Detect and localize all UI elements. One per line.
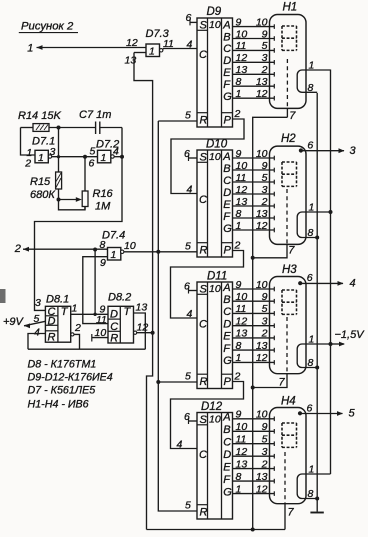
pin label 2 (D8.1 inverse Q)	[74, 322, 81, 334]
svg-text:5: 5	[262, 172, 268, 184]
svg-text:A: A	[222, 282, 230, 294]
label H3	[282, 264, 297, 276]
pin label 7 (H3)	[279, 377, 286, 389]
pin label 5 (D10 R)	[185, 240, 191, 252]
svg-text:C: C	[199, 194, 207, 206]
svg-text:1: 1	[236, 220, 242, 232]
svg-text:D7 - К561ЛЕ5: D7 - К561ЛЕ5	[28, 385, 96, 397]
node 4 (terminal arrow right)	[350, 277, 356, 289]
svg-text:9: 9	[262, 421, 268, 433]
segment wires D12 outputs A-G to display	[233, 419, 275, 494]
counter D9 (К176ИЕ4) body	[197, 18, 233, 127]
inverse output bubble D8.1 pin 2 and wire to rail	[71, 333, 80, 349]
svg-text:7: 7	[288, 245, 295, 257]
wire reset net: D9 R down to D11 R and D12 R	[158, 121, 196, 511]
svg-text:12: 12	[256, 352, 268, 364]
svg-text:5: 5	[349, 408, 356, 420]
wire D8.2 pin 13 to common rail	[134, 313, 146, 349]
node 1 (output terminal, arrow left)	[27, 43, 42, 55]
svg-text:G: G	[223, 355, 232, 367]
node junction grid rail / H2 grid	[251, 256, 255, 260]
svg-text:P: P	[224, 115, 232, 127]
segment wires D10 outputs A-G to display	[233, 158, 275, 230]
pin label 11 (D8.2 C)	[96, 314, 107, 326]
svg-text:1: 1	[309, 464, 315, 476]
wire node 1 to D7.3 pin 12	[37, 47, 147, 49]
svg-text:12: 12	[236, 446, 248, 458]
pin label 5 (D11 R)	[185, 371, 191, 383]
svg-text:P: P	[224, 245, 232, 257]
svg-text:R: R	[200, 507, 208, 519]
svg-text:1: 1	[101, 152, 107, 164]
svg-text:1: 1	[309, 202, 315, 214]
svg-text:9: 9	[236, 148, 242, 160]
svg-text:C7 1m: C7 1m	[79, 109, 111, 121]
flip-flop D8.1 (К176ТМ1 half)	[45, 306, 70, 344]
svg-text:S: S	[200, 151, 208, 163]
svg-text:3: 3	[262, 184, 268, 196]
svg-text:10: 10	[209, 19, 221, 31]
wire H3 pin 6 to terminal arrow	[300, 281, 343, 286]
segment pin entry ticks of H1	[273, 24, 275, 100]
op gate D7.4	[108, 248, 124, 262]
node junction H3 pin1 / rail	[329, 342, 333, 346]
pin label 4 (D10 C)	[187, 184, 193, 196]
display tube H3 (ИВ6) envelope	[270, 277, 307, 374]
svg-text:1М: 1М	[95, 201, 111, 213]
svg-text:D10: D10	[206, 139, 228, 151]
svg-text:12: 12	[137, 322, 149, 334]
pin label 8 (H3 filament)	[308, 357, 314, 369]
svg-text:C: C	[223, 306, 231, 318]
svg-text:R: R	[200, 115, 208, 127]
svg-text:G: G	[223, 223, 232, 235]
svg-text:B: B	[223, 294, 230, 306]
svg-text:9: 9	[236, 279, 242, 291]
svg-text:D8.1: D8.1	[46, 294, 69, 306]
wire carry P of previous counter into C of D11	[171, 251, 244, 319]
svg-text:13: 13	[236, 64, 248, 76]
svg-text:D7.4: D7.4	[102, 230, 125, 242]
pin label 1 (H1 filament)	[309, 60, 315, 72]
wire D7.4 pin 9 to D8.2 pin 11	[83, 257, 108, 324]
node junction reset net	[156, 250, 160, 254]
svg-text:−1,5V: −1,5V	[335, 329, 366, 341]
node junction blink net / D8.2 pin 12	[151, 331, 155, 335]
svg-text:2: 2	[261, 458, 268, 470]
svg-text:Н2: Н2	[281, 133, 296, 145]
flip-flop D8.2 (К176ТМ1 half)	[108, 306, 134, 345]
node junction grid rail / bottom rail	[251, 528, 255, 532]
anode dot (pin 6) of H2	[299, 148, 303, 152]
svg-text:1: 1	[236, 88, 242, 100]
svg-text:D: D	[223, 187, 231, 199]
svg-text:6: 6	[307, 272, 313, 284]
svg-text:680К: 680К	[30, 189, 55, 201]
svg-text:C: C	[223, 43, 231, 55]
segment pin entry ticks of H3	[273, 287, 275, 365]
resistor R16 1M (trimmer)	[82, 157, 113, 213]
svg-text:13: 13	[236, 458, 248, 470]
svg-text:12: 12	[236, 52, 248, 64]
capacitor C7 1m	[79, 109, 111, 134]
wire D8.1 pin 4 to common rail	[28, 334, 45, 350]
svg-text:E: E	[223, 461, 231, 473]
label D8.2	[108, 292, 131, 304]
node junction D7.2 output / C7 branch	[120, 155, 124, 159]
svg-text:R14 15K: R14 15K	[18, 110, 61, 122]
svg-text:1: 1	[236, 352, 242, 364]
svg-text:4: 4	[350, 277, 356, 289]
label D10	[206, 139, 228, 151]
svg-text:2: 2	[14, 243, 21, 255]
pin label 8 (H4 filament)	[308, 488, 314, 500]
svg-text:5: 5	[262, 303, 268, 315]
wire D7.3 pin 13 stub	[134, 52, 146, 54]
svg-text:A: A	[222, 19, 230, 31]
svg-text:D12: D12	[201, 401, 223, 413]
svg-text:13: 13	[256, 471, 268, 483]
svg-text:3: 3	[350, 145, 357, 157]
svg-text:4: 4	[34, 327, 40, 339]
svg-text:9: 9	[100, 257, 106, 269]
node 3 (terminal arrow right)	[350, 145, 357, 157]
pin label 6 (D10)	[184, 148, 190, 160]
pin label 6 (H3)	[307, 272, 313, 284]
svg-text:6: 6	[186, 12, 192, 24]
pin label 5 (D12 R)	[185, 500, 191, 512]
svg-text:S: S	[200, 283, 208, 295]
node 2 (terminal, arrow left)	[14, 243, 29, 255]
pin label 1 (H2 filament)	[309, 202, 315, 214]
pin label 5 (D7.2)	[90, 146, 96, 158]
svg-text:10: 10	[236, 421, 248, 433]
wire node 2 to D7.4 pin 8	[23, 248, 108, 250]
svg-text:2: 2	[74, 322, 81, 334]
svg-text:1: 1	[27, 43, 33, 55]
label H4	[281, 396, 296, 408]
svg-text:S: S	[200, 414, 208, 426]
seven-segment figure inside H1	[282, 26, 297, 50]
svg-text:10: 10	[209, 413, 221, 425]
pin label 7 (H4)	[288, 507, 295, 519]
pin label 6 (H2)	[307, 140, 313, 152]
node junction R15 top on gate wire	[57, 155, 60, 158]
pin label 6 (H4)	[307, 402, 313, 414]
pin label 4 (D7.2 output)	[113, 146, 119, 158]
pin label 13 (D8.2 T out)	[136, 302, 148, 314]
svg-text:5: 5	[262, 40, 268, 52]
svg-text:R: R	[200, 376, 208, 388]
label H2	[281, 133, 296, 145]
svg-text:5: 5	[185, 371, 191, 383]
pin 6 S-input stub of D12	[189, 418, 198, 424]
pin label 10 (D7.4 output)	[124, 240, 136, 252]
wire D7.3 output pin 11 to D9 pin C	[163, 49, 197, 51]
grid electrode (dashed) of H1	[286, 59, 288, 108]
svg-text:1: 1	[72, 303, 78, 315]
segment pin number labels between D11 and display	[236, 279, 268, 364]
wire seconds net down to D8.2 D row	[93, 250, 96, 316]
svg-text:1: 1	[38, 152, 44, 164]
svg-text:C: C	[199, 49, 207, 61]
svg-text:10: 10	[256, 148, 268, 160]
svg-text:10: 10	[256, 279, 268, 291]
svg-text:4: 4	[113, 146, 119, 158]
svg-text:13: 13	[236, 328, 248, 340]
pin label 1 (D7.1)	[26, 147, 32, 159]
label D8.1	[46, 294, 69, 306]
pin label 6 (D11)	[184, 280, 190, 292]
filament of H4 (pins 1 and 8)	[297, 474, 330, 499]
svg-text:8: 8	[308, 357, 314, 369]
svg-text:B: B	[223, 424, 230, 436]
svg-text:6: 6	[184, 411, 190, 423]
svg-text:D: D	[223, 319, 231, 331]
wire carry P of previous counter into C of D12	[171, 382, 244, 449]
wire grid pin 7 of H2	[253, 244, 287, 257]
anode dot (pin 6) of H3	[298, 281, 302, 285]
svg-text:D: D	[223, 55, 231, 67]
svg-text:11: 11	[236, 172, 247, 184]
svg-text:6: 6	[184, 280, 190, 292]
svg-text:8: 8	[236, 76, 242, 88]
pin label 1 (D8.1 Q)	[72, 303, 78, 315]
svg-text:9: 9	[262, 28, 268, 40]
svg-text:B: B	[223, 31, 230, 43]
node junction R15/R16 wiper	[57, 198, 61, 202]
svg-text:E: E	[223, 199, 231, 211]
svg-text:12: 12	[256, 220, 268, 232]
node junction R16 top on gate wire	[83, 155, 87, 159]
wire top oscillator rail (R14/C7)	[21, 127, 123, 129]
node 5 (terminal arrow right)	[349, 408, 356, 420]
pin label 8 (H1 filament)	[308, 82, 314, 94]
svg-text:2: 2	[261, 328, 268, 340]
svg-text:10: 10	[209, 283, 221, 295]
(edge artifact)	[0, 289, 6, 303]
pin label 7 (H1)	[289, 110, 296, 122]
svg-text:1: 1	[309, 60, 315, 72]
svg-text:5: 5	[185, 240, 191, 252]
svg-text:8: 8	[236, 340, 242, 352]
svg-text:D9-D12-К176ИЕ4: D9-D12-К176ИЕ4	[28, 372, 113, 384]
svg-text:11: 11	[236, 303, 247, 315]
wire filament rail pin-8 side	[316, 93, 318, 512]
svg-text:E: E	[223, 67, 231, 79]
label D7.1	[32, 136, 55, 148]
op gate D7.2	[98, 150, 115, 164]
svg-text:P: P	[224, 376, 232, 388]
wire H4 pin 6 to terminal arrow	[300, 411, 343, 416]
pin label 6 (D12)	[184, 411, 190, 423]
svg-text:5: 5	[185, 500, 191, 512]
svg-text:9: 9	[262, 160, 268, 172]
svg-text:12: 12	[256, 483, 268, 495]
resistor R14 15K	[18, 110, 61, 131]
pin label 1 (H3 filament)	[309, 334, 315, 346]
svg-text:2: 2	[24, 158, 31, 170]
svg-text:6: 6	[184, 148, 190, 160]
svg-text:8: 8	[236, 208, 242, 220]
inverse output bubble D8.2 pin 12, wire to blink net	[134, 331, 153, 334]
pin label 1 (H4 filament)	[309, 464, 315, 476]
wire grids net bottom rail	[147, 529, 286, 531]
pin label 5 (D8.1 D)	[34, 313, 40, 325]
display tube H2 (ИВ6) envelope	[270, 146, 307, 244]
svg-text:3: 3	[262, 316, 268, 328]
svg-text:7: 7	[288, 507, 295, 519]
svg-text:10: 10	[236, 160, 248, 172]
power -1,5V terminal (filament supply)	[331, 329, 366, 346]
pin label 11 (D7.3 output)	[163, 38, 174, 50]
label H1	[283, 2, 298, 14]
wire R16 bottom loop	[59, 200, 86, 210]
pin label 4 (D11 C)	[187, 308, 193, 320]
svg-text:13: 13	[256, 340, 268, 352]
svg-text:8: 8	[308, 227, 314, 239]
svg-text:Рисунок 2: Рисунок 2	[21, 21, 74, 33]
svg-text:10: 10	[124, 240, 136, 252]
svg-text:D9: D9	[207, 6, 222, 18]
svg-text:9: 9	[262, 291, 268, 303]
svg-text:11: 11	[236, 434, 247, 446]
svg-text:10: 10	[236, 28, 248, 40]
node junction H3 pin8 / rail	[315, 366, 319, 370]
pin label 6 (D9)	[186, 12, 192, 24]
svg-text:12: 12	[236, 184, 248, 196]
svg-text:R15: R15	[30, 176, 51, 188]
svg-text:10: 10	[209, 151, 221, 163]
svg-text:8: 8	[308, 82, 314, 94]
node junction reset net at D11 R	[156, 380, 160, 384]
grid electrode (dashed) of H2	[286, 189, 288, 244]
wire D9 R from reset net corner	[158, 120, 197, 122]
svg-text:1: 1	[149, 46, 155, 58]
svg-text:7: 7	[289, 110, 296, 122]
svg-text:R: R	[110, 333, 118, 345]
svg-text:8: 8	[308, 488, 314, 500]
wire grid pin 7 of H1	[286, 108, 288, 117]
wire D8 common bottom rail	[28, 348, 145, 350]
label D7.2	[96, 139, 119, 151]
filament of H1 (pins 1 and 8)	[297, 70, 330, 92]
grid electrode (dashed) of H3	[286, 317, 288, 374]
wire grid pin 7 of H3	[253, 374, 287, 388]
grid electrode (dashed) of H4	[284, 452, 286, 504]
label D7.4	[102, 230, 125, 242]
wire H2 pin 6 to terminal arrow	[301, 148, 345, 153]
display tube H4 (ИВ6) envelope	[270, 408, 307, 504]
svg-text:5: 5	[90, 146, 96, 158]
svg-text:9: 9	[236, 409, 242, 421]
pin 6 S-input stub of D11	[189, 288, 198, 294]
filament of H2 (pins 1 and 8)	[297, 212, 330, 238]
svg-text:2: 2	[234, 108, 241, 120]
op gate D7.1	[35, 150, 52, 164]
node junction H2 pin8 / rail	[315, 236, 319, 240]
svg-text:C: C	[199, 319, 207, 331]
svg-text:D8 - К176ТМ1: D8 - К176ТМ1	[28, 359, 97, 371]
wire carry P of previous counter into C of D10	[171, 119, 244, 194]
segment pin number labels between D10 and display	[236, 148, 268, 232]
svg-text:Н4: Н4	[281, 396, 296, 408]
svg-text:2: 2	[234, 371, 241, 383]
segment pin number labels between D9 and display	[236, 16, 268, 100]
svg-text:1: 1	[111, 249, 117, 261]
svg-text:3: 3	[262, 446, 268, 458]
svg-text:Н1-Н4 - ИВ6: Н1-Н4 - ИВ6	[28, 399, 89, 411]
svg-text:B: B	[223, 163, 230, 175]
pin label 9 (D8.2 D)	[100, 304, 106, 316]
anode dot (pin 6) of H4	[298, 411, 302, 415]
svg-text:6: 6	[307, 140, 313, 152]
svg-text:4: 4	[187, 39, 193, 51]
wire reset net branch to D11 R	[158, 381, 196, 383]
svg-text:13: 13	[256, 208, 268, 220]
pin label 12 (D8.2 inverse out)	[137, 322, 149, 334]
pin label 9 (D7.4)	[100, 257, 106, 269]
pin label 3 (D8.1 C)	[35, 297, 41, 309]
svg-text:3: 3	[35, 297, 41, 309]
pin label 5 (D9 R)	[185, 110, 191, 122]
label D9	[207, 6, 222, 18]
pin label 12 (D7.3)	[126, 37, 138, 49]
svg-text:10: 10	[256, 409, 268, 421]
svg-text:5: 5	[185, 110, 191, 122]
svg-text:13: 13	[136, 302, 148, 314]
svg-text:D8.2: D8.2	[108, 292, 131, 304]
svg-text:D11: D11	[207, 271, 227, 283]
svg-text:10: 10	[236, 291, 248, 303]
svg-text:11: 11	[236, 40, 247, 52]
svg-text:1: 1	[309, 334, 315, 346]
svg-text:S: S	[200, 19, 208, 31]
svg-text:6: 6	[89, 158, 95, 170]
resistor R15 680K	[30, 128, 62, 202]
svg-text:C: C	[223, 437, 231, 449]
svg-text:12: 12	[236, 316, 248, 328]
svg-text:10: 10	[256, 16, 268, 28]
svg-text:Н1: Н1	[283, 2, 298, 14]
svg-text:D: D	[223, 449, 231, 461]
pin label 4 (D8.1 R)	[34, 327, 40, 339]
node junction seconds net to D8.2 pin 9	[93, 248, 97, 252]
svg-text:D: D	[110, 309, 118, 321]
figure caption "Рисунок 2"	[19, 21, 78, 33]
wire D8.2 pin 10 stub with end tick	[92, 334, 108, 342]
ground (common) symbol	[310, 512, 323, 514]
svg-text:R: R	[200, 245, 208, 257]
svg-text:13: 13	[236, 196, 248, 208]
svg-text:8: 8	[236, 471, 242, 483]
power +9V terminal	[3, 316, 45, 328]
svg-text:A: A	[222, 412, 230, 424]
node junction grid rail / H3 grid	[251, 386, 255, 390]
wire R15 bottom to R16 wiper (arrow)	[59, 197, 82, 202]
svg-text:2: 2	[261, 196, 268, 208]
segment wires D11 outputs A-G to display	[233, 289, 275, 362]
svg-text:C: C	[110, 321, 118, 333]
svg-text:D: D	[48, 316, 56, 328]
svg-text:7: 7	[279, 377, 286, 389]
svg-text:3: 3	[262, 52, 268, 64]
pin label 4 (D9 C)	[187, 39, 193, 51]
counter D10 (К176ИЕ4) body	[197, 150, 233, 257]
pin label 7 (H2)	[288, 245, 295, 257]
svg-text:12: 12	[256, 88, 268, 100]
svg-text:C: C	[223, 175, 231, 187]
